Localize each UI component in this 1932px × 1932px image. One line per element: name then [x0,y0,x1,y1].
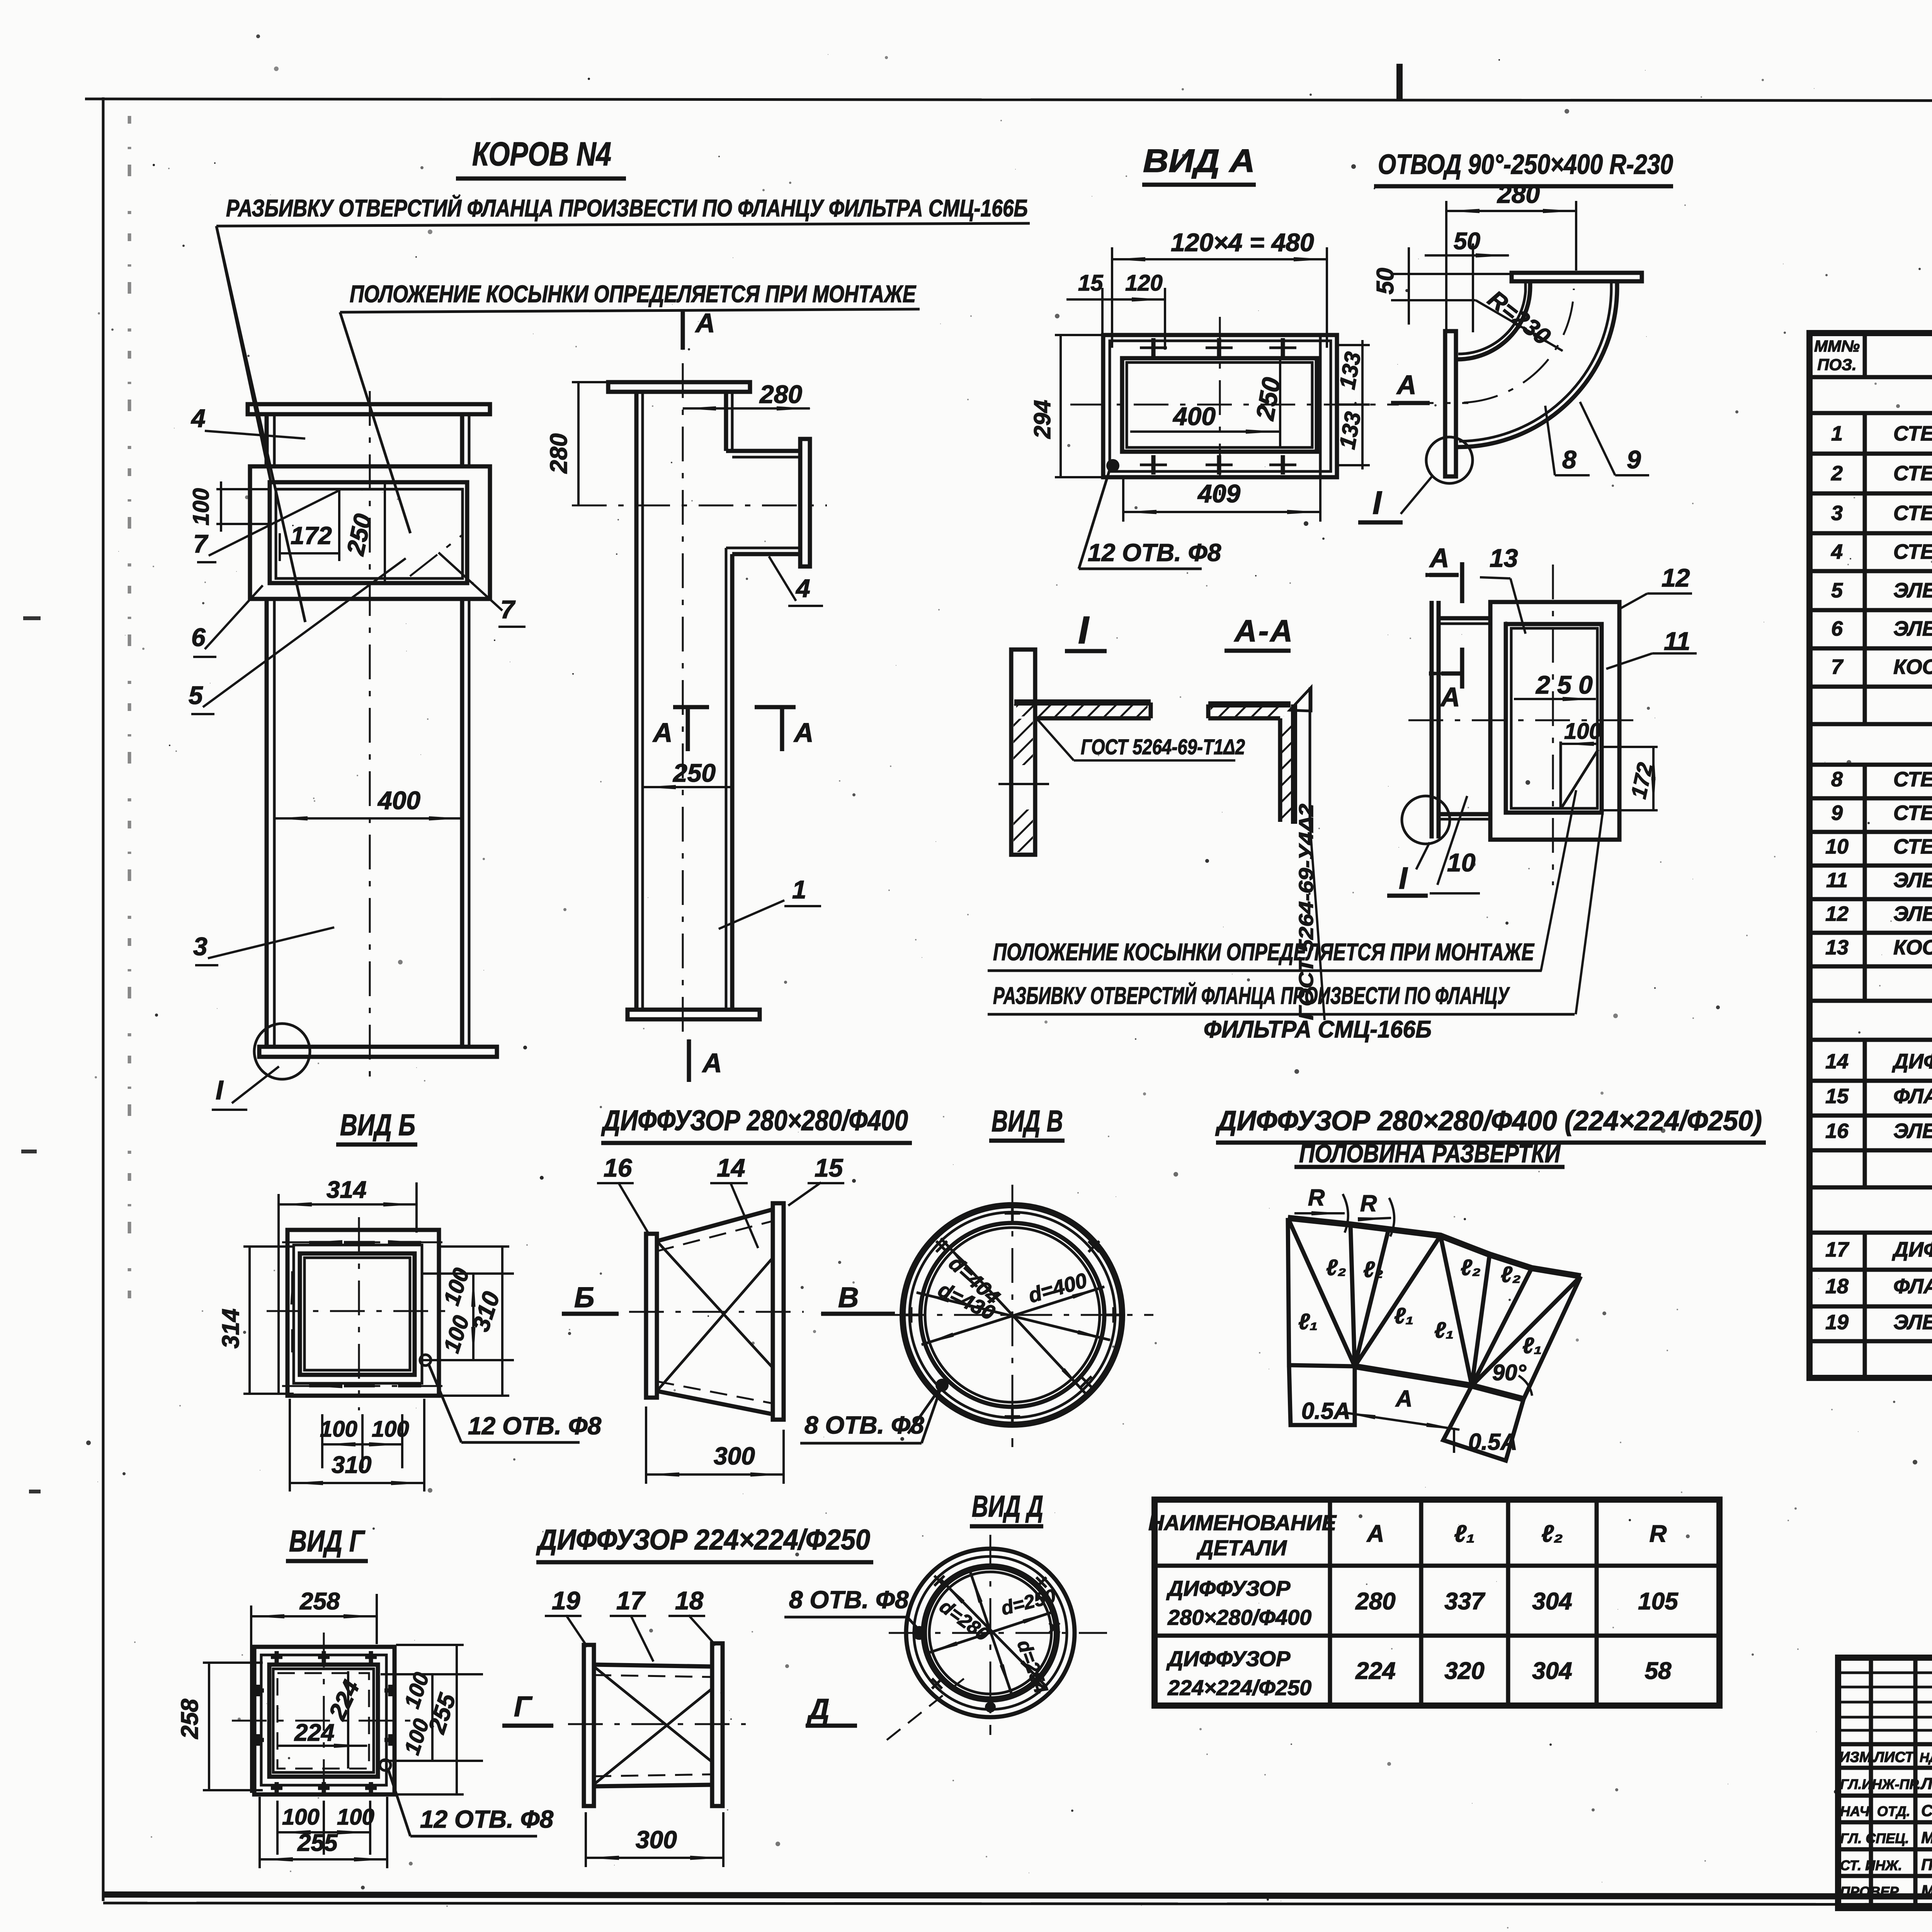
svg-text:РАЗБИВКУ ОТВЕРСТИЙ ФЛАНЦА: РАЗБИВКУ ОТВЕРСТИЙ ФЛАНЦА ПРОИЗВЕСТИ ПО … [993,982,1510,1009]
svg-text:I: I [1078,609,1090,652]
vid D title [970,1489,1043,1526]
svg-text:258: 258 [177,1699,203,1739]
detail circle [1402,796,1450,844]
svg-text:224: 224 [294,1719,334,1746]
svg-text:6: 6 [1831,617,1843,640]
svg-text:18: 18 [1825,1275,1849,1298]
svg-text:314: 314 [218,1309,244,1349]
branch flange bar [800,439,810,566]
development title [1215,1105,1766,1168]
svg-text:4: 4 [795,574,810,602]
svg-text:19: 19 [552,1586,580,1615]
dim 100 [216,488,270,490]
svg-text:3: 3 [193,932,207,961]
svg-text:КОСЫНКА: КОСЫНКА [1893,655,1932,679]
kosynka dash-dot diagonal [410,535,463,576]
otvod title [1374,149,1673,186]
svg-text:ВИД Д: ВИД Д [972,1489,1043,1523]
middle notes [988,939,1575,1043]
vertical plate [1278,718,1282,822]
svg-text:5: 5 [1831,579,1843,602]
svg-text:А: А [695,308,715,338]
svg-text:А: А [1440,682,1460,712]
svg-text:258: 258 [299,1588,340,1615]
horizontal plate [1208,701,1291,707]
svg-text:R: R [1360,1190,1377,1216]
centerlines [990,1535,992,1735]
svg-text:МАЛЫШЕВА: МАЛЫШЕВА [1921,1828,1932,1847]
section band 1 [1810,411,1932,415]
svg-text:280: 280 [759,380,802,408]
vertical plate outline [1011,650,1035,855]
svg-text:2: 2 [1831,462,1843,485]
svg-text:172: 172 [291,522,332,549]
svg-text:304: 304 [1532,1588,1572,1615]
dim 294 left [1060,335,1062,477]
svg-text:100: 100 [1564,719,1602,744]
svg-text:ℓ₂: ℓ₂ [1326,1255,1346,1280]
right flange bar [773,1203,784,1420]
svg-text:R: R [1650,1520,1667,1547]
inlet connect lines [1456,357,1458,362]
korob N4 side view [546,308,827,1082]
bolt crosses [252,1651,396,1794]
branch bottom horizontals [732,552,800,556]
branch centerline [572,505,827,507]
svg-text:3: 3 [1831,502,1843,525]
left flange bar [646,1234,657,1398]
svg-text:15: 15 [815,1153,844,1182]
svg-text:ℓ₁: ℓ₁ [1298,1309,1318,1334]
svg-text:5: 5 [189,681,203,709]
svg-text:ЭЛЕМЕНТ ФЛАНЦА: ЭЛЕМЕНТ ФЛАНЦА [1893,902,1932,925]
svg-text:ОТВОД 90°-250×400 R-230: ОТВОД 90°-250×400 R-230 [1378,149,1673,180]
svg-text:ДИФФУЗОР: ДИФФУЗОР [1892,1050,1932,1073]
svg-text:8 ОТВ. Ф8: 8 ОТВ. Ф8 [789,1586,909,1614]
svg-text:ДИФФУЗОР 224×224/Ф250: ДИФФУЗОР 224×224/Ф250 [536,1524,870,1556]
svg-text:ЭЛЕМЕНТ ФЛАНЦА С=314.: ЭЛЕМЕНТ ФЛАНЦА С=314. [1893,1119,1932,1143]
short verticals from flange to arcs [1528,281,1532,288]
flange inner [1506,624,1602,813]
centerline short [998,783,1049,785]
svg-text:Б: Б [574,1281,594,1313]
svg-text:294: 294 [1029,400,1055,439]
svg-text:0.5А: 0.5А [1301,1398,1350,1424]
svg-text:13: 13 [1490,544,1518,572]
svg-text:I: I [1372,485,1382,521]
svg-text:ДЕТАЛИ: ДЕТАЛИ [1196,1536,1287,1560]
svg-text:8: 8 [1831,768,1843,791]
walls lower [265,599,269,1047]
note 2: polozhenie kosynki [340,281,920,533]
svg-text:13: 13 [1825,936,1849,959]
svg-text:409: 409 [1197,479,1240,508]
svg-text:10: 10 [1825,835,1849,858]
svg-text:ℓ₂: ℓ₂ [1541,1520,1563,1547]
svg-text:400: 400 [377,786,420,815]
12 otv f8 [420,1355,431,1366]
korob N4 front view [189,391,526,1110]
svg-text:58: 58 [1645,1658,1672,1684]
vid B square flange [218,1177,602,1492]
svg-text:100: 100 [337,1804,374,1830]
fold diagonals [657,1241,773,1368]
svg-text:I: I [216,1075,224,1105]
svg-text:7: 7 [193,529,209,558]
cone [657,1209,773,1241]
diameters [940,1578,1045,1685]
svg-text:12 ОТВ. Ф8: 12 ОТВ. Ф8 [420,1805,554,1833]
specification table [1810,291,1932,1378]
vid D circle [887,1535,1107,1740]
otvod flange view [1387,543,1697,1014]
hatches on vertical plate [1014,719,1033,765]
fan lines from v1 [1288,1218,1440,1366]
opening [1122,358,1317,452]
A-A section marks middle [673,705,709,709]
bolt strip right [1319,336,1322,476]
svg-text:СТЕНКА: СТЕНКА [1893,502,1932,525]
svg-text:ВИД А: ВИД А [1143,143,1255,179]
svg-text:11: 11 [1664,627,1690,655]
right side dims 100 100 310 [422,1272,514,1275]
vertical centerline [369,391,371,1078]
right wall upper segment [724,392,728,451]
centerlines [1408,719,1636,721]
vid G square flange [177,1588,554,1868]
svg-text:Д: Д [806,1693,829,1725]
svg-text:300: 300 [714,1442,755,1470]
flange bars [584,1645,594,1806]
svg-text:19: 19 [1825,1311,1849,1334]
section mark A top [681,309,685,350]
svg-text:СТЕНКА: СТЕНКА [1893,768,1932,791]
svg-text:10: 10 [1447,848,1476,877]
development drawing [1288,1185,1581,1461]
svg-text:12: 12 [1825,902,1849,925]
svg-text:ЭЛЕМЕНТ ФЛАНЦА: ЭЛЕМЕНТ ФЛАНЦА [1893,869,1932,892]
svg-text:НДОКУМЕНТА: НДОКУМЕНТА [1920,1750,1932,1765]
svg-text:ℓ₁: ℓ₁ [1434,1318,1454,1343]
svg-text:ФЛАНЕЦ d=254: ФЛАНЕЦ d=254 [1893,1275,1932,1298]
svg-text:СТЕНКА: СТЕНКА [1893,540,1932,563]
title diffuser 280 [601,1104,912,1143]
right wall lower segment [730,554,735,1010]
side flange box outer [250,466,490,599]
svg-text:105: 105 [1638,1588,1679,1615]
svg-text:ПОЛОВИНА РАЗВЕРТКИ: ПОЛОВИНА РАЗВЕРТКИ [1299,1139,1561,1168]
section band 4 [1810,1231,1932,1235]
svg-text:ГОСТ 5264-69-Т1Δ2: ГОСТ 5264-69-Т1Δ2 [1081,735,1245,759]
svg-text:В: В [838,1281,859,1313]
svg-text:12 ОТВ. Ф8: 12 ОТВ. Ф8 [468,1412,602,1440]
vid G title [286,1524,368,1561]
svg-text:12: 12 [1662,563,1690,592]
svg-text:4: 4 [1831,540,1843,563]
svg-text:255: 255 [297,1830,338,1856]
svg-text:ℓ₂: ℓ₂ [1363,1257,1383,1282]
outer border [1810,333,1932,1378]
svg-text:224: 224 [1355,1658,1395,1684]
svg-text:14: 14 [1825,1050,1849,1073]
svg-text:304: 304 [1532,1658,1572,1684]
svg-text:18: 18 [675,1586,704,1615]
svg-text:ЛЕБЕДЕВА: ЛЕБЕДЕВА [1920,1774,1932,1793]
svg-text:320: 320 [1444,1658,1484,1684]
dim 50 left vertical [1408,247,1410,325]
svg-text:ЛИСТ: ЛИСТ [1873,1749,1915,1765]
outline [1288,1218,1581,1276]
svg-text:314: 314 [327,1177,366,1203]
dim 172 right [1600,746,1658,748]
connectors to flange [1439,616,1490,621]
inner arc [1458,287,1530,359]
svg-text:ЭЛЕМЕНТ ФЛАНЦА С=258: ЭЛЕМЕНТ ФЛАНЦА С=258 [1893,1311,1932,1334]
dim 258 left [208,1663,210,1790]
svg-text:16: 16 [1825,1119,1849,1143]
hole dots [912,1626,926,1640]
weld leader [1037,719,1074,760]
rows 8-13 [1810,798,1932,1001]
flange outer [1490,602,1619,840]
detail circle [1426,437,1473,483]
svg-text:А: А [1396,370,1417,400]
svg-text:ДИФФУЗОР: ДИФФУЗОР [1166,1576,1291,1600]
svg-text:280: 280 [546,434,572,474]
svg-text:А: А [793,718,814,748]
svg-text:ИЗМ.: ИЗМ. [1839,1749,1876,1765]
section mark A bottom [687,1039,691,1082]
svg-text:РАЗБИВКУ ОТВЕРСТИЙ ФЛАНЦА П: РАЗБИВКУ ОТВЕРСТИЙ ФЛАНЦА ПРОИЗВЕСТИ ПО … [226,194,1028,222]
title diffuser 224 [536,1524,873,1562]
bottom flange bar [259,1047,497,1057]
centerline [568,1723,746,1725]
svg-text:ВИД Г: ВИД Г [289,1524,366,1558]
right dims [381,1673,483,1675]
otvod elbow drawing [1358,180,1649,522]
svg-text:90°: 90° [1492,1360,1527,1385]
svg-text:12 ОТВ. Ф8: 12 ОТВ. Ф8 [1088,539,1221,566]
svg-text:9: 9 [1627,445,1641,474]
svg-text:А: А [702,1048,722,1078]
svg-text:11: 11 [1826,869,1848,892]
horizontal plate [1014,699,1151,706]
svg-text:ДИФФУЗОР: ДИФФУЗОР [1892,1238,1932,1261]
centerline [629,1311,804,1313]
svg-text:15: 15 [1078,270,1103,296]
svg-text:8: 8 [1562,445,1577,474]
svg-text:ℓ₁: ℓ₁ [1522,1333,1542,1358]
svg-text:310: 310 [332,1452,371,1478]
I detail (weld) [998,650,1245,855]
left signature columns [1871,1658,1932,1908]
I detail title [1065,609,1107,652]
svg-text:280×280/Ф400: 280×280/Ф400 [1167,1605,1311,1629]
top flange bar [248,404,490,414]
svg-text:15: 15 [1825,1085,1849,1108]
top flange bar [1512,273,1642,281]
corner bolt dot [1106,459,1119,472]
bottom strips [1289,1365,1355,1425]
svg-text:А-А: А-А [1234,614,1294,648]
A section mark bottom [1441,672,1462,676]
svg-text:СТЕНКА: СТЕНКА [1893,801,1932,825]
svg-text:7: 7 [1831,655,1844,679]
svg-text:ЭЛЕМЕНТ ФЛАНЦА: ЭЛЕМЕНТ ФЛАНЦА [1893,579,1932,602]
weld arrow flag [1290,687,1311,711]
dims 133 133 right [1361,340,1364,469]
svg-text:ℓ₂: ℓ₂ [1461,1255,1481,1280]
svg-text:А: А [1366,1520,1384,1547]
svg-text:50: 50 [1372,268,1399,294]
svg-text:МАЛЫШЕВА: МАЛЫШЕВА [1921,1882,1932,1900]
svg-text:А: А [1395,1386,1412,1412]
svg-text:280: 280 [1497,180,1540,208]
bolt cross ticks [903,1206,1121,1424]
bottom flange [628,1010,760,1019]
long leaders to notes below [1541,790,1576,971]
thin top rows [1838,1673,1932,1730]
left wall [634,392,639,1010]
centerlines [1012,1185,1014,1447]
rows 1-7 [1831,422,1932,718]
svg-text:ММ№: ММ№ [1814,337,1860,355]
svg-text:ДИФФУЗОР: ДИФФУЗОР [1166,1646,1291,1671]
vid B title [336,1108,417,1145]
svg-text:1: 1 [1831,422,1843,445]
diameters [941,1238,1086,1394]
svg-text:ДИФФУЗОР 280×280/Ф400: ДИФФУЗОР 280×280/Ф400 [601,1104,908,1136]
svg-text:КОРОВ N4: КОРОВ N4 [472,136,611,173]
svg-text:КОСЫНКА: КОСЫНКА [1893,936,1932,959]
svg-text:I: I [1399,861,1408,895]
A-A title [1225,614,1294,651]
svg-text:224×224/Ф250: 224×224/Ф250 [1167,1675,1311,1700]
svg-text:100: 100 [282,1804,320,1830]
svg-text:СТ. ИНЖ.: СТ. ИНЖ. [1840,1857,1902,1873]
svg-text:ВИД В: ВИД В [992,1104,1063,1138]
svg-text:ℓ₁: ℓ₁ [1394,1303,1413,1328]
section band 3 [1810,1038,1932,1042]
svg-text:СТЕНКА: СТЕНКА [1893,835,1932,858]
svg-text:1: 1 [792,875,806,904]
branch top horizontals [726,449,800,453]
svg-text:50: 50 [1454,228,1480,255]
row lines section 1 [1810,454,1932,724]
svg-text:120×4 = 480: 120×4 = 480 [1171,228,1314,257]
note 1: razbivku otverstiy [216,194,1030,622]
svg-text:ГЛ.ИНЖ-ПР.: ГЛ.ИНЖ-ПР. [1840,1776,1921,1792]
svg-text:400: 400 [1172,402,1216,430]
svg-text:СТЕНКА: СТЕНКА [1893,462,1932,485]
parameter table [1148,1500,1719,1706]
vid A title [1142,143,1256,185]
centerline [1399,402,1468,404]
column lines [1865,333,1932,377]
svg-text:100: 100 [189,488,214,526]
svg-text:НАИМЕНОВАНИЕ: НАИМЕНОВАНИЕ [1148,1510,1337,1535]
svg-text:ВИД Б: ВИД Б [340,1108,415,1142]
svg-text:280: 280 [1355,1588,1395,1615]
svg-text:8 ОТВ. Ф8: 8 ОТВ. Ф8 [804,1411,924,1439]
svg-text:А: А [652,718,673,748]
stenka edge bar [1430,601,1434,838]
hole dot + label 8 [935,1379,949,1392]
top flange [608,382,750,392]
vid A flange view [1029,228,1399,569]
vid V title [989,1104,1065,1141]
bolt tick arrows on top line [309,1241,421,1244]
svg-text:14: 14 [717,1153,745,1182]
svg-text:СЕМЕНОВ: СЕМЕНОВ [1921,1801,1932,1820]
svg-text:НАЧ. ОТД.: НАЧ. ОТД. [1840,1803,1910,1819]
svg-text:ПОТАПОВА: ПОТАПОВА [1921,1855,1932,1874]
A-A detail (weld) [1208,687,1325,1020]
bolt crosses [932,1576,1060,1689]
dim 280 vertical left [577,382,580,505]
outer flange rect [1103,335,1337,477]
svg-text:4: 4 [190,404,206,432]
svg-text:16: 16 [604,1153,633,1182]
header [1810,375,1932,379]
svg-text:6: 6 [191,623,206,651]
svg-text:300: 300 [636,1826,677,1854]
svg-text:ПРОВЕР.: ПРОВЕР. [1840,1884,1901,1900]
svg-text:120: 120 [1125,270,1163,296]
svg-text:ФИЛЬТРА СМЦ-166Б: ФИЛЬТРА СМЦ-166Б [1204,1016,1432,1043]
diffuser 280 side view [562,1153,940,1484]
svg-text:17: 17 [616,1586,646,1615]
svg-text:17: 17 [1825,1238,1850,1261]
svg-text:А: А [1429,543,1449,573]
dashed leader lower-left [887,1677,966,1740]
kosynka vertical + diagonal [1560,742,1562,809]
svg-text:ГЛ. СПЕЦ.: ГЛ. СПЕЦ. [1840,1830,1909,1846]
svg-text:ФЛАНЕЦ d=404: ФЛАНЕЦ d=404 [1893,1085,1932,1108]
title block [1838,1658,1932,1908]
opening outer [270,482,467,583]
svg-text:ДИФФУЗОР 280×280/Ф400 (224×224: ДИФФУЗОР 280×280/Ф400 (224×224/Ф250) [1215,1105,1762,1136]
12 otv f8 [380,1760,391,1770]
inlet flange bar vertical [1445,331,1456,476]
centerline vertical [682,363,684,1043]
svg-text:Г: Г [514,1690,533,1723]
svg-text:9: 9 [1831,801,1843,825]
svg-text:100: 100 [320,1417,357,1442]
svg-text:337: 337 [1444,1588,1485,1615]
section band 2 [1810,763,1932,767]
title KOROB N4 [456,136,626,179]
svg-text:СТЕНКА: СТЕНКА [1893,422,1932,445]
bolt dash lines [282,1242,442,1243]
svg-text:R: R [1308,1185,1325,1211]
dim 314 left [248,1247,251,1394]
opening inner [276,489,463,578]
outer arc [1458,288,1617,447]
detail circle I [254,1024,310,1079]
svg-text:ℓ₂: ℓ₂ [1501,1262,1521,1287]
svg-text:ЭЛЕМЕНТ ФЛАНЦА: ЭЛЕМЕНТ ФЛАНЦА [1893,617,1932,640]
svg-text:ПОЗ.: ПОЗ. [1817,355,1857,374]
svg-text:2 5 0: 2 5 0 [1535,670,1593,699]
svg-text:100: 100 [372,1417,409,1442]
svg-text:ПОЛОЖЕНИЕ КОСЫНКИ ОПРЕДЕЛЯЕТ: ПОЛОЖЕНИЕ КОСЫНКИ ОПРЕДЕЛЯЕТСЯ ПРИ МОНТА… [993,939,1534,966]
diffuser 224 side view [502,1586,920,1867]
cone lines [594,1665,712,1667]
svg-text:ℓ₁: ℓ₁ [1454,1520,1475,1547]
bolt ticks top strip [1153,338,1283,474]
fold diagonals [594,1667,712,1762]
